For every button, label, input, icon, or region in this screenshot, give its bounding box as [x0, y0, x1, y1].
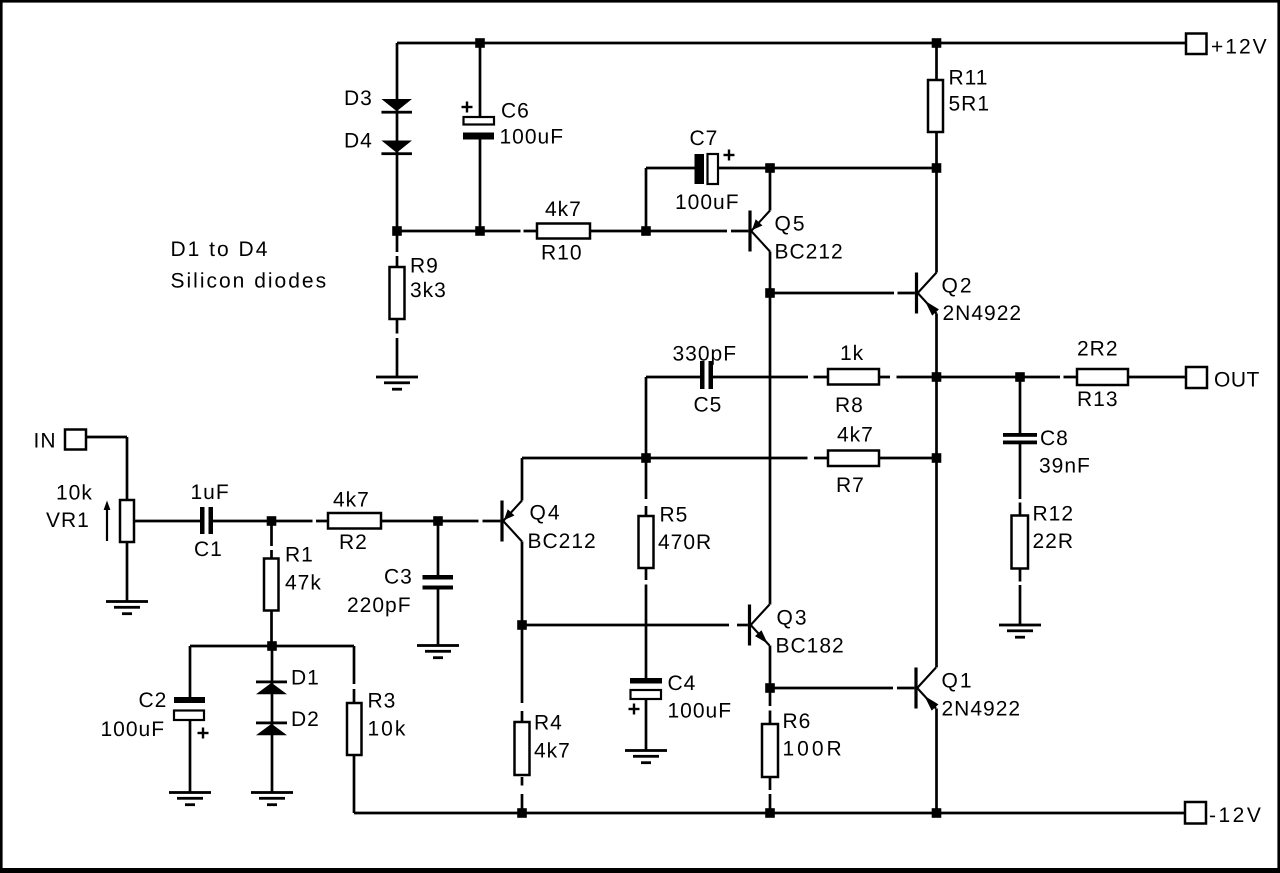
svg-text:C8: C8	[1040, 427, 1069, 450]
svg-text:-12V: -12V	[1209, 804, 1263, 827]
svg-text:470R: 470R	[658, 531, 712, 554]
svg-text:C7: C7	[690, 127, 719, 150]
svg-text:1k: 1k	[840, 342, 864, 365]
svg-text:R5: R5	[660, 504, 689, 527]
svg-text:10k: 10k	[56, 482, 93, 505]
svg-text:Q2: Q2	[942, 275, 974, 298]
svg-text:C1: C1	[194, 538, 223, 561]
svg-text:100R: 100R	[783, 738, 845, 761]
svg-text:10k: 10k	[368, 718, 408, 741]
svg-text:D4: D4	[344, 130, 373, 153]
svg-text:C5: C5	[694, 394, 723, 417]
svg-text:R1: R1	[285, 544, 314, 567]
svg-text:+12V: +12V	[1211, 36, 1269, 59]
svg-text:C4: C4	[668, 672, 697, 695]
svg-text:5R1: 5R1	[949, 93, 991, 116]
svg-text:C2: C2	[139, 689, 168, 712]
svg-text:R2: R2	[339, 531, 368, 554]
svg-text:C6: C6	[501, 100, 530, 123]
svg-text:D1: D1	[291, 667, 320, 690]
svg-text:D1 to D4: D1 to D4	[171, 238, 270, 261]
svg-text:100uF: 100uF	[500, 126, 565, 149]
svg-text:22R: 22R	[1033, 530, 1075, 553]
svg-text:39nF: 39nF	[1039, 455, 1091, 478]
svg-text:4k7: 4k7	[333, 489, 370, 512]
svg-text:330pF: 330pF	[673, 343, 738, 366]
svg-text:Q4: Q4	[530, 502, 562, 525]
svg-text:R13: R13	[1077, 388, 1119, 411]
svg-text:R8: R8	[835, 394, 864, 417]
svg-text:4k7: 4k7	[545, 198, 582, 221]
svg-text:R11: R11	[949, 67, 989, 90]
svg-text:47k: 47k	[285, 572, 322, 595]
svg-text:220pF: 220pF	[347, 594, 412, 617]
svg-text:R4: R4	[534, 712, 563, 735]
svg-text:Q3: Q3	[777, 607, 809, 630]
svg-text:4k7: 4k7	[837, 424, 874, 447]
svg-text:BC212: BC212	[775, 241, 844, 264]
svg-text:R10: R10	[541, 242, 583, 265]
svg-text:R3: R3	[368, 690, 397, 713]
svg-text:D3: D3	[344, 87, 373, 110]
svg-text:1uF: 1uF	[191, 481, 230, 504]
svg-text:BC182: BC182	[776, 635, 845, 658]
svg-text:Silicon diodes: Silicon diodes	[171, 270, 329, 293]
svg-text:R7: R7	[836, 474, 865, 497]
svg-text:4k7: 4k7	[534, 740, 571, 763]
svg-text:C3: C3	[384, 566, 413, 589]
svg-text:R9: R9	[410, 255, 439, 278]
svg-text:R6: R6	[783, 710, 812, 733]
svg-text:2N4922: 2N4922	[942, 698, 1022, 721]
svg-text:2N4922: 2N4922	[943, 302, 1023, 325]
svg-text:100uF: 100uF	[101, 718, 166, 741]
svg-text:3k3: 3k3	[410, 279, 447, 302]
svg-text:D2: D2	[291, 708, 320, 731]
svg-text:100uF: 100uF	[668, 700, 733, 723]
svg-text:Q1: Q1	[942, 670, 974, 693]
svg-text:100uF: 100uF	[675, 191, 740, 214]
svg-text:VR1: VR1	[46, 509, 90, 532]
svg-text:IN: IN	[34, 430, 57, 453]
svg-text:Q5: Q5	[775, 213, 807, 236]
svg-text:R12: R12	[1033, 503, 1075, 526]
svg-text:OUT: OUT	[1214, 369, 1260, 392]
svg-text:BC212: BC212	[528, 530, 597, 553]
svg-text:2R2: 2R2	[1077, 338, 1119, 361]
